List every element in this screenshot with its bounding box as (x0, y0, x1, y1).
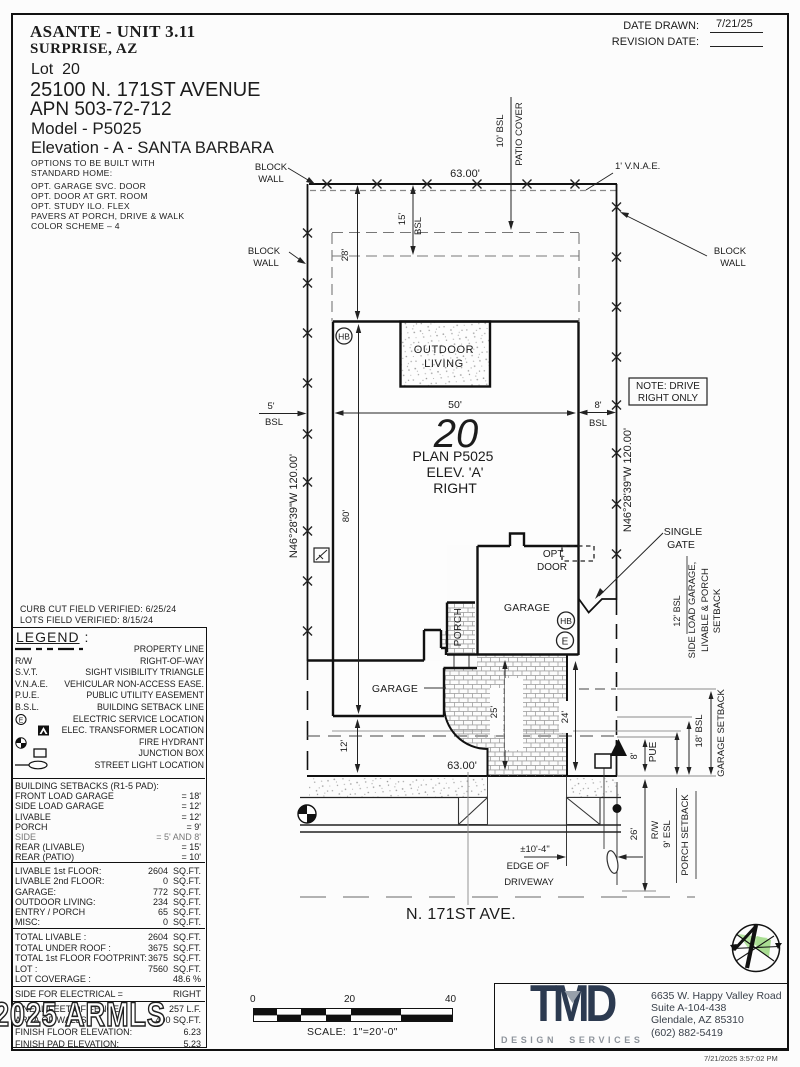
legend divider 4 (12, 986, 205, 987)
gate V notch in right wall (579, 599, 617, 613)
18' BSL dim line (688, 724, 690, 772)
8' PUE dim line (644, 742, 646, 769)
gray PUE extension (617, 736, 677, 738)
svg-text:GARAGE: GARAGE (372, 683, 418, 695)
right property line dashed portion (616, 600, 618, 740)
svg-text:PORCH SETBACK: PORCH SETBACK (680, 794, 691, 876)
legend panel box (12, 627, 207, 1048)
underline beside PORCH SETBACK (695, 791, 697, 879)
porch steps (454, 655, 469, 668)
50' dim line (337, 412, 574, 414)
address (30, 79, 261, 102)
svg-text:R/W: R/W (650, 821, 661, 840)
street centerline dashed (300, 896, 695, 898)
elevation (31, 139, 274, 158)
model (31, 119, 142, 139)
svg-text:BSL: BSL (265, 417, 283, 428)
svg-text:DOOR: DOOR (537, 562, 567, 573)
TMD address (651, 990, 782, 1039)
svg-text:5': 5' (267, 401, 274, 412)
date drawn field (499, 20, 699, 32)
svg-text:BSL: BSL (413, 217, 424, 235)
underline beside 12' BSL note (686, 556, 688, 634)
legend divider 3 (12, 928, 205, 929)
svg-text:BLOCK: BLOCK (255, 162, 288, 173)
svg-text:25': 25' (489, 706, 500, 719)
svg-text:8': 8' (594, 400, 601, 411)
svg-text:WALL: WALL (253, 258, 279, 269)
X marks on top wall (323, 180, 332, 189)
svg-text:OPT.: OPT. (543, 549, 565, 560)
8' BSL dim line (581, 412, 614, 414)
svg-text:RIGHT: RIGHT (433, 480, 477, 496)
house fill masses (332, 322, 579, 717)
svg-text:HB: HB (338, 332, 350, 342)
svg-text:E: E (19, 717, 24, 724)
junction box symbol (595, 754, 611, 768)
TMD logo gray triangle (564, 991, 582, 1004)
opt door dashed box (562, 546, 594, 561)
PUE dashed line near front (307, 735, 616, 737)
legend title (16, 629, 89, 645)
ARMLS watermark (0, 996, 166, 1035)
gray extension of garage BSL (617, 688, 716, 690)
24' driveway dim line (575, 664, 577, 768)
lot number (31, 61, 80, 79)
legend divider 2 (12, 862, 205, 863)
electrical side row (15, 989, 201, 999)
svg-text:LIVING: LIVING (424, 358, 464, 370)
80' dim line (358, 327, 360, 711)
scale text (307, 1026, 398, 1038)
svg-text:E: E (562, 637, 569, 648)
svg-text:1' V.N.A.E.: 1' V.N.A.E. (615, 161, 660, 172)
parkway bottom line (300, 797, 621, 799)
TMD design services box (494, 983, 788, 1049)
1' VNAE dashed line (310, 190, 616, 192)
gray 9' ESL line (332, 730, 681, 732)
gray tick at 26' dim bottom (622, 890, 656, 892)
driveway apron left wing (459, 798, 488, 825)
svg-text:63.00': 63.00' (450, 168, 480, 180)
svg-text:NOTE: DRIVE: NOTE: DRIVE (636, 381, 700, 392)
svg-text:HB: HB (560, 616, 572, 626)
garage setback dim line (710, 694, 712, 772)
svg-text:N. 171ST AVE.: N. 171ST AVE. (406, 906, 516, 923)
street light pole line (603, 768, 605, 849)
top property line 63.00' (309, 183, 617, 185)
outdoor living stippled patio (401, 322, 491, 387)
front property line gray extension (617, 775, 716, 777)
electric service symbol (557, 632, 574, 649)
svg-text:SETBACK: SETBACK (712, 588, 723, 633)
svg-text:GARAGE: GARAGE (504, 602, 550, 614)
X marks on right wall (612, 203, 621, 212)
svg-text:12' BSL: 12' BSL (672, 595, 682, 626)
driveway apron crossing (488, 778, 567, 825)
underline beside R/W 9' ESL (676, 788, 678, 883)
15' BSL dim line (412, 188, 414, 252)
svg-text:SIDE LOAD GARAGE,: SIDE LOAD GARAGE, (687, 562, 698, 659)
scale bar (253, 1008, 455, 1023)
parkway stipple band (309, 778, 620, 797)
25' driveway dim line (504, 663, 506, 767)
house walls (308, 322, 579, 717)
svg-text:SINGLE: SINGLE (664, 526, 703, 538)
finish elevation rows (15, 1027, 201, 1050)
APN (30, 99, 172, 121)
svg-text:BLOCK: BLOCK (714, 246, 747, 257)
svg-text:50': 50' (448, 399, 462, 411)
transformer symbol (610, 739, 627, 756)
15' BSL dashed line (332, 255, 579, 257)
right 8' BSL dashed line (578, 233, 580, 321)
svg-text:18' BSL: 18' BSL (694, 715, 705, 748)
scale bar labels (250, 994, 256, 1005)
revision date field (499, 36, 699, 48)
driveway brick paving (444, 655, 567, 776)
timestamp (704, 1054, 778, 1063)
svg-text:N46°28'39"W 120.00': N46°28'39"W 120.00' (288, 454, 300, 558)
NOTE DRIVE RIGHT ONLY box (629, 378, 707, 405)
curb line 2 (300, 831, 621, 833)
leader line to street (467, 772, 469, 905)
svg-text:WALL: WALL (258, 174, 284, 185)
legend divider 5 (12, 1001, 205, 1002)
curb line 1 (300, 824, 621, 826)
svg-text:12': 12' (339, 740, 350, 753)
svg-text:RIGHT ONLY: RIGHT ONLY (638, 393, 699, 404)
cable box symbol on left PL (314, 548, 329, 562)
areas block (15, 866, 201, 928)
options note block (31, 158, 155, 178)
driveway apron right wing (567, 798, 601, 825)
arrowheads (298, 185, 714, 892)
gray extension of garage rear line (617, 716, 692, 718)
subtitle SURPRISE, AZ (30, 41, 138, 58)
svg-text:N46°28'39"W 120.00': N46°28'39"W 120.00' (622, 428, 634, 532)
totals block (15, 932, 201, 985)
building setbacks block (15, 781, 201, 863)
svg-text:26': 26' (629, 828, 640, 841)
svg-text:DRIVEWAY: DRIVEWAY (504, 877, 554, 888)
hose bib symbol garage (558, 612, 575, 629)
entry nook brick (442, 631, 447, 648)
5' BSL dim line (259, 413, 304, 415)
single gate leader (599, 533, 663, 596)
svg-text:GARAGE SETBACK: GARAGE SETBACK (716, 689, 727, 777)
svg-text:LIVABLE & PORCH: LIVABLE & PORCH (700, 568, 711, 652)
right property line (block wall portion) (616, 184, 618, 600)
svg-text:GATE: GATE (667, 539, 695, 551)
26' RW dim line (644, 782, 646, 889)
svg-text:EDGE OF: EDGE OF (507, 861, 550, 872)
svg-text:24': 24' (560, 711, 571, 724)
fire hydrant symbol (298, 805, 316, 823)
svg-text:±10'-4": ±10'-4" (520, 844, 549, 855)
street light dot on RW line (613, 804, 622, 813)
esl dim line (676, 735, 678, 772)
svg-text:80': 80' (341, 510, 352, 523)
legend rows (15, 644, 204, 772)
right property line at transformer (616, 740, 618, 776)
svg-text:WALL: WALL (720, 258, 746, 269)
dimension arrows group (259, 97, 711, 889)
left property line (block wall portion) (307, 184, 309, 661)
X marks on left wall (303, 229, 312, 238)
svg-text:9' ESL: 9' ESL (662, 820, 673, 848)
north compass (726, 918, 788, 980)
driveway edges (444, 655, 567, 776)
svg-text:PATIO COVER: PATIO COVER (514, 102, 525, 166)
porch brick pad (447, 603, 475, 655)
left 5' BSL dashed line (331, 233, 333, 321)
street light lamp oval (605, 850, 620, 875)
18' garage BSL dashed segment right (579, 688, 616, 690)
svg-text:PORCH: PORCH (453, 608, 464, 647)
TMD logo (530, 974, 613, 1034)
edge of driveway dim lines (524, 856, 563, 858)
design services wordmark (501, 1035, 643, 1045)
svg-text:OUTDOOR: OUTDOOR (414, 344, 474, 356)
curb cut verification notes (20, 604, 176, 626)
svg-text:PLAN P5025: PLAN P5025 (413, 448, 494, 464)
svg-text:10' BSL: 10' BSL (495, 115, 506, 148)
front property line 63.00' (307, 775, 617, 777)
10' patio cover dim line (510, 97, 512, 227)
svg-text:ELEV. 'A': ELEV. 'A' (427, 464, 484, 480)
svg-text:PUE: PUE (648, 741, 659, 762)
12' dim line (357, 723, 359, 769)
10' patio BSL dashed line (332, 232, 579, 234)
svg-text:63.00': 63.00' (447, 760, 477, 772)
svg-text:8': 8' (629, 752, 639, 759)
title block: ASANTE - UNIT 3.11 (30, 22, 196, 42)
hose bib symbol rear (336, 328, 352, 344)
svg-text:28': 28' (340, 249, 351, 262)
left property line dashed front portion (307, 661, 309, 776)
28' dim line (357, 188, 359, 317)
edge of driveway ext lines (566, 779, 568, 866)
svg-text:BSL: BSL (589, 418, 607, 429)
svg-text:15': 15' (397, 213, 408, 226)
legend divider 1 (12, 778, 205, 779)
svg-text:BLOCK: BLOCK (248, 246, 281, 257)
fence rows (under watermark) (15, 1004, 201, 1026)
